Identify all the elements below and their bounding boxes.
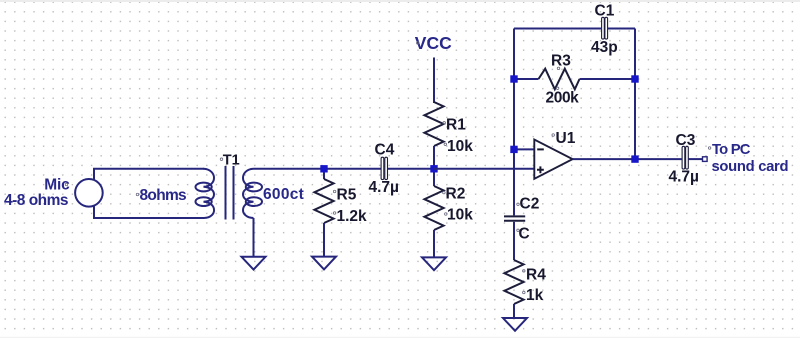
svg-text:T1: T1 bbox=[223, 152, 240, 168]
wire C4 to divider node bbox=[388, 168, 434, 170]
svg-text:43p: 43p bbox=[591, 39, 618, 56]
svg-text:R5: R5 bbox=[337, 187, 357, 204]
svg-text:10k: 10k bbox=[447, 138, 473, 155]
wire R3 right lead bbox=[580, 78, 636, 80]
junction node inverting input bbox=[510, 146, 517, 153]
anchor circle C value bbox=[517, 229, 520, 232]
capacitor C1 plate left bbox=[602, 17, 605, 39]
wire feedback left vertical bbox=[513, 29, 515, 216]
resistor R4 lead bottom bbox=[513, 304, 515, 318]
resistor R5 lead top bbox=[323, 169, 325, 179]
anchor circle 10k R2 bbox=[445, 213, 448, 216]
wire node to op-amp plus input bbox=[434, 168, 535, 170]
svg-text:To PC: To PC bbox=[712, 142, 751, 158]
junction node feedback right R3 bbox=[631, 75, 638, 82]
anchor circle U1 bbox=[552, 134, 555, 137]
T1 secondary loop 2 bbox=[246, 197, 262, 206]
svg-text:4.7µ: 4.7µ bbox=[669, 169, 699, 186]
svg-text:C: C bbox=[519, 226, 530, 243]
terminal open square bbox=[703, 157, 708, 162]
capacitor C2 plate top bbox=[504, 215, 525, 217]
wire C3 to terminal bbox=[689, 158, 703, 160]
resistor R4 zigzag bbox=[504, 260, 523, 304]
capacitor C2 plate bottom bbox=[504, 220, 525, 222]
svg-text:R1: R1 bbox=[446, 117, 466, 134]
junction node R5 top bbox=[320, 165, 327, 172]
transformer T1 secondary winding bbox=[243, 169, 254, 218]
anchor circle R1 bbox=[443, 122, 446, 125]
wire T1 secondary bottom to ground bbox=[253, 218, 255, 257]
anchor circle R3 bbox=[557, 67, 560, 70]
wire node to C4 bbox=[324, 168, 381, 170]
op-amp U1 bbox=[534, 140, 572, 179]
T1 primary loop 2 bbox=[196, 197, 212, 206]
svg-text:200k: 200k bbox=[546, 90, 580, 107]
svg-text:U1: U1 bbox=[556, 130, 576, 147]
anchor circle 10k R1 bbox=[444, 143, 447, 146]
wire C2 to R4 bbox=[513, 222, 515, 260]
svg-text:1.2k: 1.2k bbox=[337, 208, 368, 225]
anchor circle 8ohms bbox=[136, 193, 139, 196]
anchor circle R2 bbox=[443, 191, 446, 194]
wire T1 secondary top to node bbox=[254, 168, 325, 170]
svg-text:C4: C4 bbox=[375, 141, 395, 158]
capacitor C4 plate left bbox=[381, 157, 384, 179]
resistor R1 lead bottom bbox=[433, 146, 435, 169]
ground R2 bbox=[422, 257, 446, 270]
svg-text:C1: C1 bbox=[595, 3, 615, 20]
wire inverting input bbox=[514, 148, 535, 150]
svg-text:C2: C2 bbox=[520, 196, 540, 213]
svg-text:1k: 1k bbox=[526, 287, 544, 304]
resistor R2 lead top bbox=[433, 169, 435, 186]
anchor circle 200k bbox=[556, 87, 559, 90]
resistor R5 zigzag bbox=[314, 179, 333, 223]
op-amp minus sign bbox=[537, 148, 544, 150]
capacitor C3 plate right bbox=[686, 146, 689, 169]
anchor circle R4 bbox=[523, 270, 526, 273]
junction node feedback left R3 bbox=[510, 75, 517, 82]
resistor R5 lead bottom bbox=[323, 223, 325, 257]
svg-text:10k: 10k bbox=[447, 207, 473, 224]
svg-text:4.7µ: 4.7µ bbox=[369, 179, 399, 196]
op-amp plus sign bbox=[537, 166, 544, 173]
anchor circle To PC bbox=[708, 147, 711, 150]
junction node divider bbox=[430, 165, 437, 172]
ground R5 bbox=[312, 257, 336, 270]
microphone MIC bbox=[75, 179, 103, 207]
svg-text:R4: R4 bbox=[526, 267, 546, 284]
wire mic vertical stub bbox=[93, 169, 95, 218]
wire top C1 left segment bbox=[514, 28, 601, 30]
resistor R3 zigzag bbox=[539, 69, 580, 90]
wire op-amp output to C3 bbox=[573, 158, 682, 160]
ground T1 secondary bbox=[242, 257, 266, 270]
svg-text:R2: R2 bbox=[446, 186, 466, 203]
anchor circle R5 bbox=[333, 190, 336, 193]
wire VCC down to R1 bbox=[433, 58, 435, 104]
anchor circle VCC bbox=[417, 42, 420, 45]
capacitor C4 plate right bbox=[385, 157, 388, 179]
anchor circle 1.2k bbox=[333, 212, 336, 215]
svg-text:4-8 ohms: 4-8 ohms bbox=[4, 192, 68, 209]
T1 secondary loop 1 bbox=[246, 183, 262, 192]
resistor R2 lead bottom bbox=[433, 230, 435, 258]
capacitor C3 plate left bbox=[682, 146, 685, 169]
T1 primary loop 1 bbox=[196, 183, 212, 192]
wire top C1 right segment bbox=[608, 28, 635, 30]
transformer T1 core line right bbox=[233, 166, 235, 220]
svg-text:600ct: 600ct bbox=[263, 186, 304, 203]
junction node output bbox=[631, 155, 638, 162]
wire top rail mic to T1 primary bbox=[93, 168, 204, 170]
resistor R1 zigzag bbox=[424, 102, 443, 146]
anchor circle 1k bbox=[523, 291, 526, 294]
wire right vertical C1 to output bbox=[634, 29, 636, 160]
svg-text:VCC: VCC bbox=[415, 33, 452, 53]
svg-text:C3: C3 bbox=[676, 132, 696, 149]
capacitor C1 plate right bbox=[605, 17, 608, 39]
svg-text:8ohms: 8ohms bbox=[140, 187, 187, 204]
transformer T1 primary winding bbox=[204, 169, 215, 218]
svg-text:sound card: sound card bbox=[712, 159, 789, 175]
anchor circle T1 bbox=[220, 158, 223, 161]
anchor circle C2 bbox=[517, 203, 520, 206]
anchor circle Mic bbox=[65, 183, 68, 186]
resistor R2 zigzag bbox=[424, 186, 443, 230]
wire R3 left lead bbox=[514, 78, 539, 80]
wire bottom rail mic to T1 primary bbox=[93, 217, 204, 219]
svg-text:R3: R3 bbox=[551, 53, 571, 70]
transformer T1 core line left bbox=[225, 166, 227, 220]
ground R4 bbox=[503, 318, 527, 331]
